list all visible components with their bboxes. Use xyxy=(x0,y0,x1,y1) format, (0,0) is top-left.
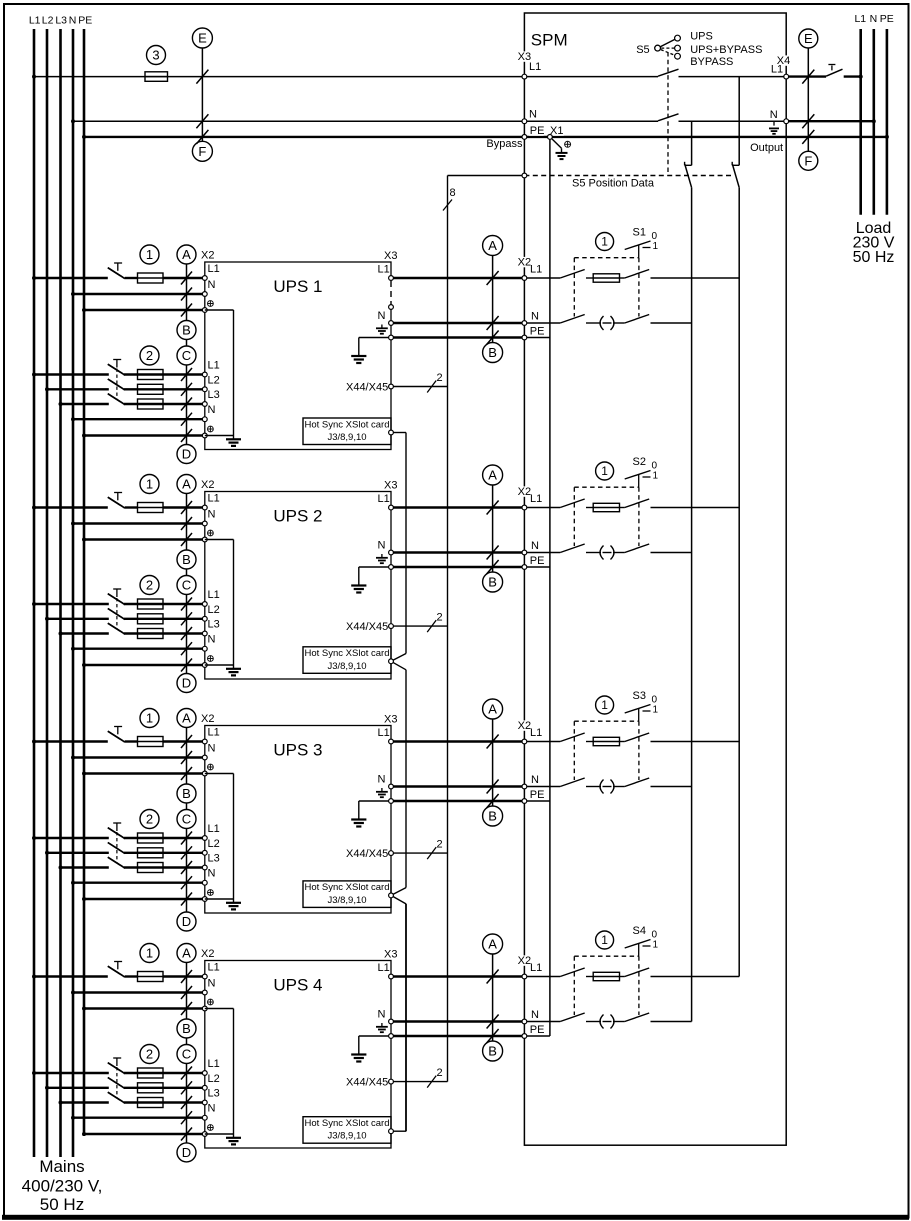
svg-text:S3: S3 xyxy=(633,690,646,702)
svg-text:1: 1 xyxy=(601,698,608,712)
svg-text:1: 1 xyxy=(653,241,659,252)
svg-text:S2: S2 xyxy=(633,456,646,468)
svg-text:N: N xyxy=(208,868,216,880)
svg-text:L1: L1 xyxy=(378,727,390,739)
svg-text:1: 1 xyxy=(146,247,153,262)
svg-text:L3: L3 xyxy=(208,853,220,865)
svg-text:N: N xyxy=(69,15,77,27)
svg-text:N: N xyxy=(208,1103,216,1115)
svg-text:50 Hz: 50 Hz xyxy=(40,1195,84,1214)
svg-text:1: 1 xyxy=(146,946,153,961)
svg-text:J3/8,9,10: J3/8,9,10 xyxy=(327,895,366,906)
svg-text:1: 1 xyxy=(653,704,659,715)
svg-text:Mains: Mains xyxy=(39,1157,84,1176)
svg-text:N: N xyxy=(770,109,778,121)
svg-text:L2: L2 xyxy=(208,604,220,616)
svg-text:PE: PE xyxy=(530,555,545,567)
svg-text:F: F xyxy=(198,144,206,159)
svg-text:L3: L3 xyxy=(208,1088,220,1100)
svg-text:1: 1 xyxy=(653,470,659,481)
svg-text:PE: PE xyxy=(530,125,545,137)
svg-text:1: 1 xyxy=(601,235,608,249)
svg-text:PE: PE xyxy=(78,15,92,27)
svg-text:UPS: UPS xyxy=(690,31,713,43)
svg-text:UPS 1: UPS 1 xyxy=(273,277,322,296)
svg-text:L1: L1 xyxy=(208,589,220,601)
svg-text:D: D xyxy=(182,914,191,929)
svg-text:L1: L1 xyxy=(530,264,542,276)
svg-text:X3: X3 xyxy=(384,250,397,262)
svg-text:2: 2 xyxy=(146,1047,153,1062)
svg-text:L2: L2 xyxy=(208,838,220,850)
svg-text:J3/8,9,10: J3/8,9,10 xyxy=(327,1131,366,1142)
svg-text:B: B xyxy=(182,552,191,567)
svg-text:C: C xyxy=(182,578,191,593)
svg-text:A: A xyxy=(488,468,497,483)
svg-text:UPS+BYPASS: UPS+BYPASS xyxy=(690,44,762,56)
svg-text:N: N xyxy=(378,1009,386,1021)
svg-text:L1: L1 xyxy=(529,61,541,73)
svg-text:E: E xyxy=(198,31,207,46)
svg-text:L1: L1 xyxy=(208,360,220,372)
svg-text:Output: Output xyxy=(750,142,783,154)
svg-text:Bypass: Bypass xyxy=(486,138,523,150)
svg-text:N: N xyxy=(208,743,216,755)
svg-text:B: B xyxy=(488,1044,497,1059)
svg-text:B: B xyxy=(488,809,497,824)
svg-text:N: N xyxy=(378,310,386,322)
svg-text:S5: S5 xyxy=(636,44,649,56)
svg-text:L1: L1 xyxy=(378,493,390,505)
svg-text:N: N xyxy=(531,1009,539,1021)
svg-text:L3: L3 xyxy=(208,619,220,631)
svg-text:2: 2 xyxy=(437,612,443,624)
svg-text:L1: L1 xyxy=(530,962,542,974)
svg-text:N: N xyxy=(208,978,216,990)
svg-text:L1: L1 xyxy=(208,493,220,505)
svg-text:SPM: SPM xyxy=(531,31,568,50)
svg-text:2: 2 xyxy=(146,348,153,363)
svg-text:1: 1 xyxy=(653,939,659,950)
svg-text:L2: L2 xyxy=(208,374,220,386)
svg-text:X44/X45: X44/X45 xyxy=(346,621,388,633)
svg-text:X44/X45: X44/X45 xyxy=(346,381,388,393)
svg-text:A: A xyxy=(488,937,497,952)
svg-text:X3: X3 xyxy=(384,949,397,961)
svg-text:Hot Sync XSlot card: Hot Sync XSlot card xyxy=(304,648,389,659)
svg-text:J3/8,9,10: J3/8,9,10 xyxy=(327,432,366,443)
svg-text:N: N xyxy=(208,279,216,291)
svg-text:L1: L1 xyxy=(771,64,783,76)
svg-text:2: 2 xyxy=(437,372,443,384)
svg-text:X2: X2 xyxy=(201,479,214,491)
svg-text:A: A xyxy=(182,711,191,726)
svg-text:S1: S1 xyxy=(633,227,646,239)
svg-text:A: A xyxy=(488,238,497,253)
svg-text:E: E xyxy=(804,31,813,46)
svg-text:L1: L1 xyxy=(530,493,542,505)
svg-text:1: 1 xyxy=(146,711,153,726)
svg-text:N: N xyxy=(529,109,537,121)
svg-text:F: F xyxy=(804,153,812,168)
svg-text:L1: L1 xyxy=(378,264,390,276)
svg-text:J3/8,9,10: J3/8,9,10 xyxy=(327,661,366,672)
svg-text:UPS 4: UPS 4 xyxy=(273,976,322,995)
svg-text:N: N xyxy=(378,540,386,552)
svg-text:2: 2 xyxy=(437,839,443,851)
svg-text:3: 3 xyxy=(152,48,159,63)
svg-text:2: 2 xyxy=(437,1067,443,1079)
svg-text:BYPASS: BYPASS xyxy=(690,56,733,68)
svg-text:X3: X3 xyxy=(384,480,397,492)
svg-text:L1: L1 xyxy=(29,15,41,27)
svg-text:PE: PE xyxy=(530,789,545,801)
svg-text:L1: L1 xyxy=(378,962,390,974)
svg-text:B: B xyxy=(182,786,191,801)
svg-text:PE: PE xyxy=(880,13,894,25)
svg-text:B: B xyxy=(488,575,497,590)
svg-text:N: N xyxy=(208,634,216,646)
svg-text:X3: X3 xyxy=(384,714,397,726)
svg-text:N: N xyxy=(208,509,216,521)
svg-text:A: A xyxy=(488,702,497,717)
svg-text:X2: X2 xyxy=(201,948,214,960)
svg-text:C: C xyxy=(182,1047,191,1062)
svg-text:2: 2 xyxy=(146,812,153,827)
svg-text:2: 2 xyxy=(146,578,153,593)
svg-text:PE: PE xyxy=(530,1024,545,1036)
svg-text:Hot Sync XSlot card: Hot Sync XSlot card xyxy=(304,882,389,893)
svg-text:L1: L1 xyxy=(208,823,220,835)
svg-text:A: A xyxy=(182,946,191,961)
svg-text:400/230 V,: 400/230 V, xyxy=(22,1177,103,1196)
svg-text:A: A xyxy=(182,247,191,262)
svg-text:L3: L3 xyxy=(55,15,67,27)
svg-text:L1: L1 xyxy=(208,1058,220,1070)
svg-text:N: N xyxy=(378,774,386,786)
svg-text:D: D xyxy=(182,1145,191,1160)
svg-text:UPS 3: UPS 3 xyxy=(273,741,322,760)
svg-text:Hot Sync XSlot card: Hot Sync XSlot card xyxy=(304,1118,389,1129)
svg-text:L1: L1 xyxy=(854,13,866,25)
svg-text:L2: L2 xyxy=(208,1073,220,1085)
svg-text:C: C xyxy=(182,348,191,363)
svg-text:L1: L1 xyxy=(208,263,220,275)
svg-text:B: B xyxy=(488,345,497,360)
svg-text:X44/X45: X44/X45 xyxy=(346,848,388,860)
svg-text:X2: X2 xyxy=(201,713,214,725)
svg-text:B: B xyxy=(182,1021,191,1036)
svg-text:L1: L1 xyxy=(208,727,220,739)
svg-text:L1: L1 xyxy=(208,962,220,974)
svg-text:D: D xyxy=(182,676,191,691)
svg-text:A: A xyxy=(182,477,191,492)
svg-text:S5 Position Data: S5 Position Data xyxy=(572,178,655,190)
svg-text:1: 1 xyxy=(601,464,608,478)
svg-text:1: 1 xyxy=(146,477,153,492)
svg-text:1: 1 xyxy=(601,933,608,947)
svg-text:N: N xyxy=(531,774,539,786)
svg-text:C: C xyxy=(182,812,191,827)
svg-text:B: B xyxy=(182,323,191,338)
svg-text:50 Hz: 50 Hz xyxy=(853,249,895,266)
svg-text:N: N xyxy=(870,13,878,25)
svg-text:D: D xyxy=(182,447,191,462)
svg-text:X44/X45: X44/X45 xyxy=(346,1076,388,1088)
svg-text:8: 8 xyxy=(450,187,456,199)
svg-text:N: N xyxy=(531,540,539,552)
svg-text:N: N xyxy=(208,404,216,416)
svg-text:X2: X2 xyxy=(201,250,214,262)
svg-text:L1: L1 xyxy=(530,727,542,739)
svg-text:PE: PE xyxy=(530,326,545,338)
svg-text:L2: L2 xyxy=(42,15,54,27)
svg-text:L3: L3 xyxy=(208,389,220,401)
svg-text:Hot Sync XSlot card: Hot Sync XSlot card xyxy=(304,419,389,430)
svg-text:N: N xyxy=(531,311,539,323)
svg-text:UPS 2: UPS 2 xyxy=(273,507,322,526)
svg-text:S4: S4 xyxy=(633,925,646,937)
